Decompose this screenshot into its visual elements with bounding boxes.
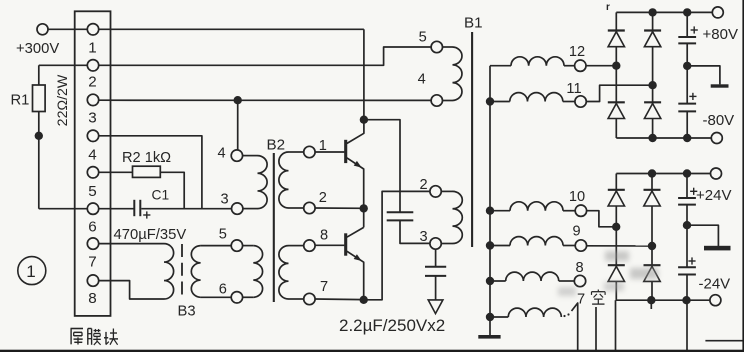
- svg-text:5: 5: [419, 30, 427, 46]
- B1 winding 5-4 top lead: [443, 46, 453, 48]
- rect24 node in9: [648, 242, 656, 250]
- rect24 node in10: [612, 223, 620, 231]
- svg-text:-80V: -80V: [703, 112, 735, 129]
- svg-text:22Ω/2W: 22Ω/2W: [55, 74, 71, 126]
- rect80 diode D2: [644, 32, 660, 47]
- secondary winding 10 coil: [510, 202, 563, 211]
- wire cap24 column lower: [686, 275, 688, 301]
- svg-text:9: 9: [572, 224, 580, 240]
- wire 10 to rectifier: [587, 211, 617, 227]
- svg-text:2: 2: [319, 190, 327, 206]
- resistor R1 lead bottom: [38, 112, 40, 136]
- B2 winding 8-7 top lead: [289, 245, 304, 247]
- wire junction to pin6: [39, 208, 88, 210]
- rect24 diode D7: [608, 266, 624, 281]
- rect80 diode D1: [608, 32, 624, 47]
- rect24 bottom rail node cap: [682, 296, 690, 304]
- B1 winding 2-3 coil: [453, 191, 463, 243]
- wire junction down to pin6: [38, 136, 40, 209]
- callout circle 1: [18, 257, 46, 285]
- wire B2 pin8 to Q2 base: [315, 244, 344, 246]
- rect80 diode D3: [608, 104, 624, 119]
- scan border right: [742, 0, 744, 352]
- svg-text:5: 5: [88, 183, 96, 200]
- module pin 1: [87, 24, 98, 35]
- rect80 bottom rail node mid: [648, 134, 656, 142]
- svg-text:2: 2: [419, 177, 427, 193]
- winding 7 open end marks: [563, 315, 565, 317]
- B1 terminal 3: [430, 238, 441, 249]
- svg-text:1: 1: [88, 39, 96, 56]
- svg-text:-24V: -24V: [699, 276, 731, 293]
- bottom right wire segment: [705, 340, 744, 342]
- svg-text:B1: B1: [464, 15, 483, 32]
- label kong (empty): [592, 290, 606, 305]
- kong leader line: [595, 307, 597, 352]
- terminal 5 of winding: [231, 240, 242, 251]
- svg-text:8: 8: [575, 260, 583, 276]
- wire pin2 run to B1 pin5: [39, 47, 431, 65]
- node Q1 emitter: [360, 204, 368, 212]
- wire pin7 lead going down: [572, 303, 578, 352]
- svg-text:+80V: +80V: [703, 26, 738, 43]
- bus junction W7: [486, 313, 494, 321]
- wire stub below node: [650, 300, 652, 309]
- resistor R1 lead top: [38, 65, 40, 85]
- wire pin1 down to Q1 collector node: [363, 29, 365, 119]
- transistor Q2 emitter: [347, 251, 364, 300]
- terminal +80V output: [712, 7, 723, 18]
- transformer B1 core: [471, 32, 473, 247]
- B2 terminal 7: [304, 293, 315, 304]
- transformer B3 primary winding: [164, 244, 174, 299]
- rect80 diode D4: [644, 104, 660, 119]
- rect24 bottom rail node mid: [647, 296, 655, 304]
- rect24 diode D5: [608, 191, 624, 206]
- wire pin7 to B3 primary top: [99, 243, 164, 245]
- wire cap column upper: [686, 12, 688, 36]
- wire to ground 80: [687, 66, 720, 85]
- svg-text:5: 5: [219, 227, 227, 243]
- winding 5-6 right coil: [253, 246, 262, 298]
- svg-text:7: 7: [88, 253, 96, 270]
- capacitor +24V filter: [678, 197, 696, 199]
- wire B1 pin3 to lower cap: [435, 249, 437, 267]
- B2 winding 1-2 bottom lead: [289, 207, 304, 209]
- capacitor -80V filter: [678, 103, 696, 105]
- bus ground bar: [478, 335, 500, 339]
- scan border bottom: [0, 350, 744, 352]
- resistor R1 body: [33, 85, 46, 112]
- svg-text:r: r: [606, 2, 610, 13]
- svg-text:4: 4: [217, 145, 225, 161]
- svg-text:3: 3: [220, 192, 228, 208]
- transformer B3 core (dashed): [181, 244, 183, 299]
- B2 terminal 2: [304, 202, 315, 213]
- svg-text:1: 1: [26, 262, 35, 281]
- secondary winding 7 coil: [508, 308, 561, 317]
- secondary winding 11 coil: [510, 93, 563, 102]
- transistor Q1 base bar: [344, 140, 347, 163]
- capacitor C1 plates: [133, 200, 135, 216]
- rect24 bottom rail: [616, 299, 710, 301]
- secondary winding 8 coil: [506, 272, 559, 281]
- svg-text:3: 3: [419, 229, 427, 245]
- ground bar 80: [711, 84, 729, 87]
- junction node R1-pin4: [35, 132, 43, 140]
- svg-text:12: 12: [569, 44, 585, 60]
- node pin3 junction: [234, 96, 242, 104]
- terminal 11: [575, 96, 586, 107]
- rect24 diode D6: [644, 191, 660, 206]
- capacitor -80V polarity: [689, 95, 696, 97]
- terminal 8 (unused): [574, 275, 585, 286]
- B1 winding 5-4 coil: [453, 47, 462, 100]
- value 22&#937;/2W rotated: [55, 74, 71, 126]
- rect80 left column: [615, 12, 617, 138]
- transistor Q2 base bar: [344, 233, 347, 255]
- B1 terminal 5: [431, 41, 442, 52]
- B2 winding 4-3 bottom lead: [243, 208, 258, 210]
- B2 winding 4-3 coil: [258, 156, 268, 209]
- wire B2 pin2 to Q1 emitter: [315, 207, 364, 209]
- module pin 5: [87, 167, 98, 178]
- svg-text:7: 7: [320, 279, 328, 295]
- hybrid module box: [75, 11, 111, 316]
- module pin 6: [87, 203, 98, 214]
- node Q1 collector / pin1: [360, 116, 368, 124]
- svg-text:11: 11: [566, 81, 581, 97]
- bus junction W8: [486, 277, 494, 285]
- node Q2 emitter: [360, 296, 368, 304]
- winding 5-6 bottom wire: [201, 296, 232, 298]
- B1 winding 2-3 top lead: [441, 190, 452, 192]
- terminal 9: [575, 240, 586, 251]
- winding 5-6 top wire: [201, 245, 232, 247]
- wire pin5 to R2: [99, 171, 133, 173]
- rect24 diode D8: [644, 266, 660, 281]
- wire pin8 to B3 primary bottom: [99, 281, 164, 299]
- label hou-mo-kuai (thick film module): [71, 329, 119, 345]
- rect80 top rail node mid: [648, 8, 656, 16]
- module pin 8: [87, 275, 98, 286]
- transistor Q2 emitter arrow: [354, 254, 362, 261]
- svg-text:+24V: +24V: [696, 187, 731, 204]
- rect80 top rail: [616, 11, 712, 13]
- rect80 node in11: [648, 81, 656, 89]
- resistor R2 right lead: [160, 172, 184, 208]
- scan watermark smudge: [558, 251, 658, 296]
- capacitor +80V polarity: [691, 29, 698, 31]
- secondary winding 9 lead: [490, 245, 510, 247]
- B2 winding 1-2 coil: [279, 152, 289, 208]
- secondary winding 10 lead: [490, 210, 510, 212]
- capacitor +80V filter: [678, 36, 696, 38]
- wire pin6 to C1: [99, 208, 134, 210]
- module pin 7: [87, 238, 98, 249]
- svg-text:4: 4: [88, 146, 96, 163]
- wire B2 pin7 to Q2 emitter: [315, 298, 364, 301]
- B2 terminal 3: [232, 203, 243, 214]
- winding 5-6 left coil: [191, 246, 200, 298]
- rect24 middle column: [651, 174, 653, 301]
- B2 terminal 1: [304, 146, 315, 157]
- svg-text:10: 10: [569, 189, 585, 205]
- wire exit below bridge left: [615, 300, 617, 350]
- wire cap24 column center: [686, 205, 688, 268]
- wire exit below cap column: [686, 300, 688, 352]
- wire cap24 column upper: [686, 174, 688, 198]
- svg-text:470µF/35V: 470µF/35V: [114, 227, 187, 243]
- rect24 top rail: [616, 173, 710, 175]
- wire pin1 from +300V terminal to node at x364: [48, 28, 364, 30]
- rect80 node in12: [612, 61, 620, 69]
- secondary winding 11 lead: [490, 101, 510, 103]
- module pin 2: [87, 60, 98, 71]
- svg-text:C1: C1: [152, 188, 170, 203]
- capacitor +24V polarity: [690, 190, 697, 192]
- wire cap to ground: [435, 276, 437, 300]
- rect80 bottom rail node cap: [683, 134, 691, 142]
- svg-text:B3: B3: [178, 304, 196, 320]
- wire Q2 emitter to B1 pin2: [364, 191, 430, 299]
- secondary winding 9 coil: [510, 237, 563, 246]
- secondary center-tap bus: [489, 66, 491, 336]
- B2 winding 4-3 top lead: [243, 155, 258, 157]
- ground bar 24: [704, 246, 731, 251]
- rect80 middle column: [652, 12, 654, 138]
- terminal +24V output: [711, 168, 722, 179]
- secondary winding 7 lead: [490, 316, 509, 318]
- svg-text:4: 4: [418, 71, 426, 87]
- B2 terminal 4: [231, 150, 242, 161]
- resistor R2 body: [133, 166, 161, 177]
- wire B2 pin1 to Q1 base: [315, 151, 344, 153]
- B1 winding 5-4 bottom lead: [443, 100, 453, 102]
- svg-text:B2: B2: [267, 137, 286, 154]
- transistor Q2 collector: [347, 227, 364, 237]
- wire pin3 run to B1 pin4: [99, 99, 431, 101]
- bus junction W10: [486, 207, 494, 215]
- terminal 12: [575, 60, 586, 71]
- terminal -24V output: [710, 295, 721, 306]
- rect24 left column: [615, 174, 617, 301]
- B2 winding 8-7 bottom lead: [289, 298, 304, 300]
- B2 winding 8-7 coil: [279, 246, 289, 299]
- module pin 4: [87, 130, 98, 141]
- rect24 top rail node cap: [683, 169, 691, 177]
- capacitor -24V polarity: [688, 260, 695, 262]
- wire node to coupling cap: [364, 120, 400, 213]
- capacitor -24V filter: [678, 266, 696, 268]
- transistor Q1 collector: [347, 120, 364, 144]
- terminal 6 of winding: [231, 292, 242, 303]
- B2 terminal 8: [304, 240, 315, 251]
- svg-text:3: 3: [88, 110, 96, 127]
- B1 terminal 4: [431, 95, 442, 106]
- wire pin4 run to B2 pin3: [99, 136, 202, 209]
- wire Q1 emitter to Q2 collector: [363, 208, 365, 227]
- wire cap column lower: [686, 111, 688, 138]
- svg-text:8: 8: [88, 290, 96, 307]
- svg-text:R2 1kΩ: R2 1kΩ: [122, 150, 171, 166]
- svg-text:2.2µF/250Vx2: 2.2µF/250Vx2: [339, 316, 445, 335]
- rect80 bottom rail: [616, 137, 711, 139]
- bus junction W11: [486, 97, 494, 105]
- node cap midpoint 80: [683, 62, 691, 70]
- transistor Q1 emitter: [347, 158, 364, 209]
- wire junction down to B2 pin4: [237, 100, 239, 150]
- secondary winding 8 lead: [490, 280, 506, 282]
- svg-text:8: 8: [320, 228, 328, 244]
- terminal +300V input: [37, 24, 48, 35]
- node cap midpoint 24: [683, 221, 691, 229]
- rect80 top rail node cap: [683, 8, 691, 16]
- capacitor C1 polarity +: [143, 214, 150, 216]
- wire C1 to B2 pin3: [141, 208, 231, 210]
- secondary winding 12 lead: [490, 65, 511, 67]
- ground symbol (triangle): [428, 300, 443, 314]
- module pin 3: [87, 94, 98, 105]
- secondary winding 12 coil: [511, 57, 564, 66]
- B1 winding 2-3 bottom lead: [441, 243, 452, 245]
- svg-text:R1: R1: [11, 93, 30, 109]
- wire 9 to rectifier: [587, 245, 653, 247]
- terminal -80V output: [711, 133, 722, 144]
- svg-text:2: 2: [88, 74, 96, 91]
- transistor Q1 emitter arrow: [354, 161, 362, 168]
- B2 winding 1-2 top lead: [289, 151, 304, 153]
- svg-text:6: 6: [219, 282, 227, 298]
- svg-text:6: 6: [88, 219, 96, 236]
- wire 11 to rectifier: [586, 85, 652, 101]
- wire to ground 24: [687, 225, 718, 246]
- rect24 top rail node mid: [648, 169, 656, 177]
- svg-text:+300V: +300V: [16, 41, 59, 57]
- capacitor 2.2uF lower plates: [425, 266, 446, 268]
- capacitor 2.2uF upper plates: [387, 211, 414, 213]
- wire cap column center: [686, 43, 688, 103]
- transformer B2 core: [273, 153, 275, 302]
- wire cap to B1 pin3: [400, 220, 430, 243]
- terminal 10: [575, 205, 586, 216]
- wire 12 to rectifier: [586, 65, 616, 67]
- bus junction W9: [486, 241, 494, 249]
- B1 terminal 2: [430, 186, 441, 197]
